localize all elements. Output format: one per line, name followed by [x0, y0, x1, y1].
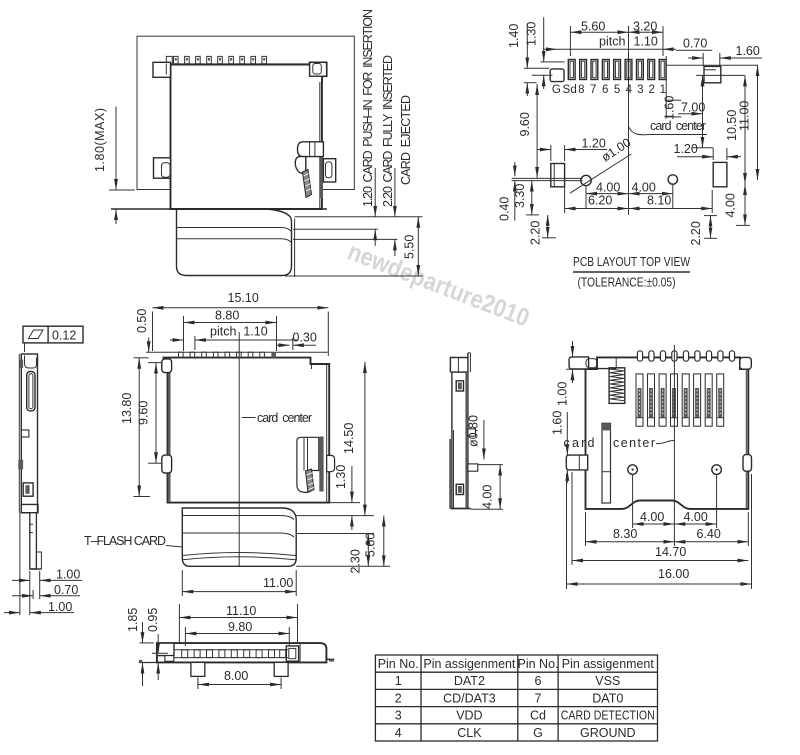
svg-text:1.00: 1.00 [48, 600, 72, 614]
svg-text:CARD DETECTION: CARD DETECTION [561, 709, 655, 723]
svg-text:5.60: 5.60 [364, 533, 378, 557]
bottom-right tab [323, 159, 335, 182]
svg-text:PCB LAYOUT TOP VIEW: PCB LAYOUT TOP VIEW [573, 255, 690, 269]
svg-text:1.60: 1.60 [736, 44, 760, 58]
solder pin [468, 464, 478, 471]
right edge inner [745, 369, 747, 508]
svg-text:DAT2: DAT2 [454, 674, 485, 688]
svg-text:1: 1 [395, 674, 402, 688]
card center line [673, 345, 675, 546]
svg-text:1.30: 1.30 [525, 22, 539, 46]
svg-text:2.20: 2.20 [689, 221, 703, 245]
svg-text:G: G [552, 84, 561, 96]
svg-text:13.80: 13.80 [120, 393, 134, 424]
svg-text:pitch 1.10: pitch 1.10 [210, 325, 268, 339]
view G : bottom side view [126, 604, 334, 689]
pcb tail left [139, 662, 157, 664]
svg-text:9.60: 9.60 [137, 401, 151, 425]
teeth bar [174, 649, 288, 651]
contact slot [27, 372, 35, 411]
pads Sd..1 [568, 60, 666, 80]
stem [30, 513, 37, 569]
double ref lines [512, 177, 583, 179]
svg-text:6.40: 6.40 [697, 527, 721, 541]
svg-text:card center: card center [257, 411, 312, 425]
svg-text:14.50: 14.50 [342, 423, 356, 454]
hole left [581, 175, 591, 185]
dim 1.80(MAX) [93, 107, 135, 225]
dim 5.60 / 3.20 [569, 26, 571, 56]
right dark band [465, 372, 468, 508]
svg-text:4.00: 4.00 [724, 193, 738, 217]
view E : narrow side view right [449, 353, 503, 509]
inner top line [586, 368, 617, 370]
ref lines right [666, 64, 758, 66]
left tabs [162, 359, 172, 373]
svg-text:2: 2 [648, 84, 655, 96]
pin squares row [166, 56, 310, 64]
svg-text:Pin No.: Pin No. [518, 657, 559, 671]
svg-text:2.20: 2.20 [529, 221, 543, 245]
svg-text:1.20 CARD PUSH–IN FOR INSE: 1.20 CARD PUSH–IN FOR INSERTION [361, 9, 375, 207]
svg-text:CD/DAT3: CD/DAT3 [443, 691, 496, 705]
svg-text:9.60: 9.60 [518, 112, 532, 136]
svg-text:8.80: 8.80 [215, 309, 239, 323]
shell body [163, 358, 330, 503]
body [452, 372, 468, 508]
svg-text:15.10: 15.10 [228, 291, 259, 305]
svg-text:2.20 CARD FULLY INSERTED: 2.20 CARD FULLY INSERTED [381, 55, 395, 207]
hole right [668, 175, 677, 184]
card inserted [182, 508, 296, 566]
svg-text:8.00: 8.00 [224, 669, 248, 683]
mount pad right [713, 162, 727, 186]
svg-text:5.60: 5.60 [581, 20, 605, 34]
view F : bottom view with contacts [551, 341, 752, 589]
mid tab [468, 429, 476, 436]
svg-text:0.95: 0.95 [146, 608, 160, 632]
svg-text:5.50: 5.50 [403, 235, 417, 259]
svg-text:0.70: 0.70 [683, 36, 707, 50]
svg-text:card center: card center [650, 119, 706, 133]
left notch dark [19, 360, 23, 368]
svg-text:14.70: 14.70 [655, 545, 686, 559]
latch hook [295, 157, 306, 174]
dim 1.20 card push-in [361, 9, 375, 246]
latch bar [298, 142, 324, 157]
dim 2.20 card fully inserted [381, 55, 395, 256]
watermark [344, 237, 533, 332]
svg-text:2: 2 [395, 691, 402, 705]
svg-text:GROUND: GROUND [580, 726, 636, 740]
svg-text:1.40: 1.40 [507, 24, 521, 48]
svg-text:T–FLASH CARD: T–FLASH CARD [84, 534, 166, 548]
svg-text:7: 7 [590, 84, 597, 96]
latch spring pin hatched [303, 170, 312, 198]
card center label [242, 417, 256, 419]
left ticks [541, 61, 565, 63]
svg-text:3: 3 [395, 709, 402, 723]
bottom [450, 508, 470, 510]
svg-text:newdeparture2010: newdeparture2010 [344, 237, 533, 332]
svg-text:6: 6 [602, 84, 609, 96]
svg-text:11.10: 11.10 [226, 604, 256, 618]
view B : PCB layout [498, 17, 763, 289]
pin bumps [179, 352, 277, 357]
svg-text:1.30: 1.30 [334, 465, 348, 489]
ext lines bottom [19, 513, 21, 615]
top cap [450, 358, 468, 373]
svg-text:3: 3 [637, 84, 644, 96]
left cap [157, 643, 174, 656]
top-right tab [310, 62, 327, 76]
card center line [628, 26, 630, 215]
lower side rect [23, 483, 33, 496]
top pins [637, 351, 734, 361]
svg-text:Pin assigenment: Pin assigenment [562, 657, 655, 671]
svg-text:card: card [564, 436, 595, 450]
svg-text:ø0.80: ø0.80 [467, 415, 481, 447]
view C : left narrow side view [4, 326, 232, 615]
svg-text:CLK: CLK [457, 726, 482, 740]
svg-text:VSS: VSS [595, 674, 620, 688]
inner slot line [453, 430, 455, 509]
svg-text:0.30: 0.30 [293, 331, 317, 345]
svg-text:8.10: 8.10 [647, 194, 671, 208]
svg-text:2.30: 2.30 [349, 549, 363, 573]
svg-text:6.20: 6.20 [588, 194, 612, 208]
svg-text:0.40: 0.40 [498, 197, 512, 221]
svg-text:VDD: VDD [456, 709, 482, 723]
svg-text:(TOLERANCE:±0.05): (TOLERANCE:±0.05) [578, 276, 676, 290]
shell right edge dark band [319, 82, 321, 208]
card position lines right [295, 216, 423, 218]
bottom-left tab [154, 158, 171, 178]
svg-text:0.70: 0.70 [54, 583, 78, 597]
svg-text:7: 7 [535, 691, 542, 705]
svg-text:Pin No.: Pin No. [378, 657, 419, 671]
top hook [25, 356, 37, 369]
bottom step [21, 504, 38, 512]
svg-text:G: G [533, 726, 543, 740]
svg-text:16.00: 16.00 [658, 567, 689, 581]
svg-text:1.80(MAX): 1.80(MAX) [93, 108, 107, 172]
svg-text:7.00: 7.00 [681, 101, 705, 115]
dark tick [18, 460, 23, 470]
table : pin assignment [375, 655, 657, 741]
svg-text:1.20: 1.20 [582, 137, 606, 151]
right side inner lines [311, 364, 313, 369]
top right pad [704, 66, 721, 82]
right cap inner [299, 643, 301, 662]
svg-text:1.60: 1.60 [551, 411, 565, 435]
shell bottom long line [111, 208, 327, 210]
svg-text:1.20: 1.20 [674, 142, 698, 156]
pad labels [552, 84, 666, 96]
svg-text:3.30: 3.30 [513, 184, 527, 208]
svg-text:Sd: Sd [562, 84, 577, 96]
svg-text:5: 5 [614, 84, 621, 96]
svg-text:Pin assigenment: Pin assigenment [423, 657, 516, 671]
svg-text:4.00: 4.00 [596, 181, 620, 195]
svg-text:DAT0: DAT0 [592, 691, 623, 705]
view A : side view card ejected [93, 9, 423, 277]
dim 5.50 [403, 217, 419, 276]
svg-text:1.10: 1.10 [634, 35, 658, 49]
svg-text:1.85: 1.85 [126, 608, 140, 632]
dim 1.60 small [666, 99, 681, 101]
top pins thin line [146, 351, 328, 353]
svg-text:11.00: 11.00 [263, 576, 293, 590]
card ejected body [177, 209, 295, 277]
body outline [586, 357, 749, 509]
svg-text:9.80: 9.80 [228, 620, 252, 634]
svg-text:1.00: 1.00 [56, 568, 80, 582]
card travel outline thin rect [137, 36, 354, 189]
svg-text:Cd: Cd [530, 709, 546, 723]
svg-text:pitch: pitch [599, 35, 625, 49]
side hook [21, 430, 29, 437]
lower-right ear [743, 455, 752, 472]
card center line [238, 332, 240, 566]
svg-text:0.12: 0.12 [52, 329, 76, 343]
svg-text:11.00: 11.00 [738, 101, 752, 131]
svg-text:1: 1 [660, 84, 667, 96]
lower-left ear [566, 455, 587, 470]
svg-text:4: 4 [626, 84, 633, 96]
svg-text:1.00: 1.00 [556, 382, 570, 406]
pad G [550, 69, 564, 82]
flatness callout 0.12 [23, 326, 83, 343]
holes [628, 465, 638, 475]
big pin right [286, 646, 298, 661]
svg-text:3.20: 3.20 [633, 20, 657, 34]
svg-text:8: 8 [578, 84, 585, 96]
svg-text:0.50: 0.50 [135, 309, 149, 333]
svg-text:4.00: 4.00 [481, 485, 495, 509]
detect slot [602, 423, 611, 503]
view D : main front view with card [120, 291, 390, 596]
eject spring [609, 368, 625, 404]
leader dia 1.00 [570, 154, 631, 193]
svg-text:6: 6 [535, 674, 542, 688]
mount pad left [551, 164, 565, 187]
svg-text:1.60: 1.60 [663, 96, 677, 120]
pcb tail right [326, 658, 334, 660]
feet [191, 662, 205, 676]
top-left tab [153, 62, 171, 77]
shell main body [171, 62, 327, 209]
svg-text:4: 4 [395, 726, 402, 740]
body [157, 643, 327, 662]
top-right ear [740, 357, 752, 369]
svg-text:CARD EJECTED: CARD EJECTED [399, 95, 413, 185]
left wall dark [168, 359, 171, 503]
svg-text:4.00: 4.00 [640, 510, 664, 524]
contact strips [636, 374, 724, 426]
svg-text:4.00: 4.00 [684, 510, 708, 524]
svg-text:4.00: 4.00 [632, 181, 656, 195]
svg-text:8.30: 8.30 [613, 527, 637, 541]
latch vertical [297, 437, 319, 492]
square holes [456, 381, 463, 391]
top-left ear [569, 357, 589, 369]
body [21, 354, 37, 513]
